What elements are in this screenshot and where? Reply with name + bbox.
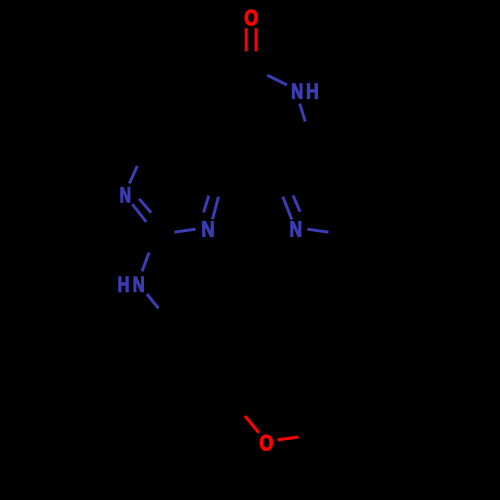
bond C16-O17 ether (red half) <box>245 416 259 433</box>
atom label N3 (pyrimidine) <box>203 221 214 236</box>
imine double bond C9=N10 (inner line) <box>293 195 300 211</box>
bond C2-N12 anilino (blue half) <box>142 253 149 272</box>
atom label H7 (amide H of NH) <box>307 84 317 99</box>
bond N10-C11 methyl (blue half) <box>307 229 328 232</box>
pyrimidine double bond N1=C2 (main line, blue half) <box>132 204 146 222</box>
bond N7-C8 (blue half) <box>300 104 306 122</box>
atom label O1 (carbonyl oxygen) <box>245 10 258 26</box>
bond O17-C18 methyl (red half) <box>277 437 298 440</box>
atom label N7 (amide N of NH) <box>292 84 302 99</box>
atom label N1 (pyrimidine) <box>121 187 130 202</box>
pyrimidine double bond N3=C4 (main line, blue half) <box>213 197 219 220</box>
imine double bond C9=N10 (main line, blue half) <box>283 197 292 220</box>
atom label N10 (imine N) <box>291 221 301 236</box>
bond N12-C13 ipso (blue half) <box>147 294 159 308</box>
carbonyl double bond C6=O1 (red halves, right line) <box>255 28 258 51</box>
atom label N12 (anilino N of HN) <box>134 277 144 292</box>
pyrimidine double bond N3=C4 (inner line) <box>204 196 209 213</box>
bond C6-N7 amide (blue half) <box>267 75 287 85</box>
bond C2-N3 (blue half) <box>175 229 196 232</box>
atom label O17 (methoxy oxygen) <box>260 435 273 451</box>
bond N1-C6a (blue half) <box>129 166 137 184</box>
pyrimidine double bond N1=C2 (inner line) <box>139 199 151 213</box>
carbonyl double bond C6=O1 (red halves, left line) <box>245 28 248 51</box>
atom label H12 (anilino H of HN) <box>119 277 129 292</box>
